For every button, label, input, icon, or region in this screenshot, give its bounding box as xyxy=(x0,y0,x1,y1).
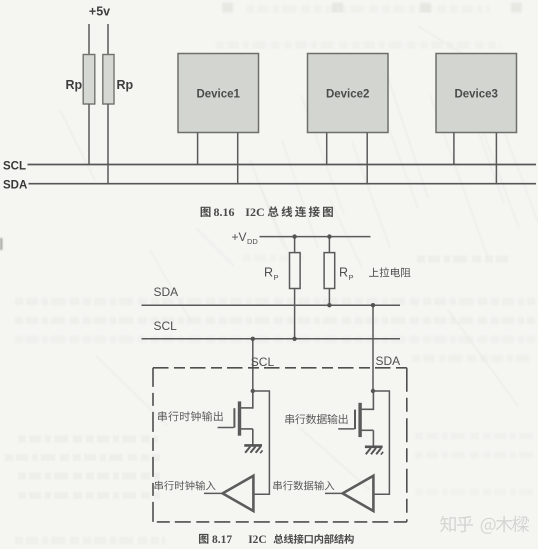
svg-text:SDA: SDA xyxy=(3,180,27,192)
svg-text:+V: +V xyxy=(232,230,247,244)
ground G1 xyxy=(244,445,262,453)
wire SCL line (fig 8.17) xyxy=(142,338,401,340)
svg-text:Device2: Device2 xyxy=(326,89,369,101)
transistor Q2 serial data output MOSFET xyxy=(338,390,373,446)
svg-text:I2C: I2C xyxy=(248,534,267,546)
svg-text:SDA: SDA xyxy=(376,354,401,368)
wire +5v to Rp2 top xyxy=(107,24,109,55)
label serial data input 串行数据输入 xyxy=(273,481,334,491)
wire Device2 SCL leg xyxy=(326,133,328,165)
wire Rp2 bottom to SDA bus xyxy=(107,104,109,184)
junction Q2 drain node xyxy=(371,389,375,393)
junction SCL-Rp1 xyxy=(292,337,296,341)
wire Rp1 bottom lead to SCL xyxy=(294,289,296,339)
buffer A2 serial data input xyxy=(343,476,374,511)
svg-text:Device1: Device1 xyxy=(196,89,240,101)
junction SCL-drop xyxy=(251,337,255,341)
svg-text:P: P xyxy=(349,273,354,282)
caption figure 8.16 xyxy=(201,205,333,219)
svg-text:I2C: I2C xyxy=(245,205,264,219)
caption figure 8.17 xyxy=(199,534,354,546)
svg-text:8.16: 8.16 xyxy=(214,205,235,219)
wire Device3 SDA leg xyxy=(495,133,497,184)
label serial clock input 串行时钟输入 xyxy=(155,481,216,491)
ground G2 xyxy=(365,447,383,455)
svg-text:8.17: 8.17 xyxy=(212,534,232,546)
wire SDA bus line (fig 8.16) xyxy=(29,183,537,185)
junction VDD-Rp2 xyxy=(327,234,331,238)
wire Rp1 top lead xyxy=(294,237,296,253)
junction SDA-drop xyxy=(371,303,375,307)
svg-text:Rp: Rp xyxy=(117,78,134,92)
wire +5v to Rp1 top xyxy=(88,24,90,55)
svg-text:SCL: SCL xyxy=(154,319,178,333)
label serial data output 串行数据输出 xyxy=(285,414,347,424)
wire Rp1 bottom to SCL bus xyxy=(88,104,90,165)
watermark 知乎 @木樑 xyxy=(440,516,529,534)
transistor Q1 serial clock output MOSFET xyxy=(218,390,253,445)
svg-text:SCL: SCL xyxy=(3,161,26,173)
wire Rp2 top lead xyxy=(328,237,330,253)
label serial clock output 串行时钟输出 xyxy=(158,411,223,421)
wire Device1 SDA leg xyxy=(237,133,239,184)
junction SDA-Rp2 xyxy=(327,303,331,307)
buffer A1 serial clock input xyxy=(223,476,254,511)
svg-text:DD: DD xyxy=(247,237,258,246)
svg-text:Rp: Rp xyxy=(66,78,83,92)
svg-text:R: R xyxy=(339,266,348,280)
resistor Rp (right pull-up, fig 8.16) xyxy=(103,55,114,105)
svg-text:P: P xyxy=(274,273,279,282)
wire Q1 feedback to buffer A1 xyxy=(253,391,270,494)
label pull-up resistor 上拉电阻 xyxy=(369,267,411,277)
wire Rp2 bottom lead to SDA xyxy=(328,289,330,306)
device block Device3 xyxy=(436,54,517,133)
wire SDA line (fig 8.17) xyxy=(142,304,401,306)
svg-text:+5v: +5v xyxy=(89,5,110,19)
wire SDA drop to transistor Q2 xyxy=(372,305,374,391)
wire Q2 feedback to buffer A2 xyxy=(373,391,389,494)
junction Q1 drain node xyxy=(251,389,255,393)
device block Device1 xyxy=(178,54,259,133)
svg-text:SCL: SCL xyxy=(251,355,275,369)
wire Device2 SDA leg xyxy=(366,133,368,184)
resistor Rp (left pull-up, fig 8.16) xyxy=(83,55,95,105)
wire +VDD rail xyxy=(260,236,371,238)
junction VDD-Rp1 xyxy=(292,234,296,238)
svg-text:Device3: Device3 xyxy=(454,89,497,101)
resistor Rp left (fig 8.17) xyxy=(290,253,301,289)
svg-text:R: R xyxy=(264,266,273,280)
svg-text:SDA: SDA xyxy=(154,285,179,299)
wire Device1 SCL leg xyxy=(197,133,199,165)
dashed interface box xyxy=(153,368,407,522)
device block Device2 xyxy=(308,54,389,133)
resistor Rp right (fig 8.17) xyxy=(324,253,335,289)
wire SCL drop to transistor Q1 xyxy=(252,339,254,391)
wire Device3 SCL leg xyxy=(453,133,455,165)
wire SCL bus line (fig 8.16) xyxy=(28,164,537,166)
